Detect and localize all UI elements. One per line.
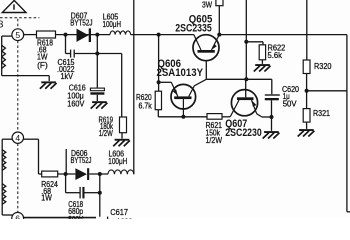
svg-text:5: 5 [15, 30, 20, 40]
svg-text:2SC2230: 2SC2230 [225, 127, 262, 139]
svg-text:50V: 50V [283, 100, 297, 109]
svg-text:1W: 1W [37, 52, 48, 61]
svg-text:R321: R321 [313, 109, 330, 118]
svg-text:R320: R320 [314, 62, 332, 71]
svg-text:1/2W: 1/2W [206, 136, 223, 145]
svg-text:100μH: 100μH [108, 157, 127, 166]
svg-text:2SA1013Y: 2SA1013Y [157, 67, 204, 79]
svg-text:1W: 1W [41, 193, 52, 202]
svg-text:1000: 1000 [117, 218, 133, 219]
svg-text:3: 3 [0, 19, 4, 30]
svg-text:500V: 500V [68, 215, 83, 219]
svg-text:4: 4 [15, 133, 20, 143]
svg-text:BYT52J: BYT52J [71, 156, 92, 165]
svg-text:BYT52J: BYT52J [70, 19, 92, 28]
svg-text:6.7k: 6.7k [139, 102, 153, 111]
svg-text:6: 6 [15, 213, 20, 219]
svg-text:3W: 3W [202, 0, 212, 9]
svg-text:C617: C617 [110, 208, 128, 217]
svg-text:1/2W: 1/2W [99, 129, 113, 138]
svg-text:1kV: 1kV [61, 72, 74, 81]
svg-text:5.6k: 5.6k [268, 51, 283, 60]
svg-text:2SC2335: 2SC2335 [175, 23, 212, 35]
svg-text:160V: 160V [67, 100, 85, 109]
svg-text:100μH: 100μH [103, 20, 122, 29]
svg-text:(F): (F) [37, 61, 48, 70]
